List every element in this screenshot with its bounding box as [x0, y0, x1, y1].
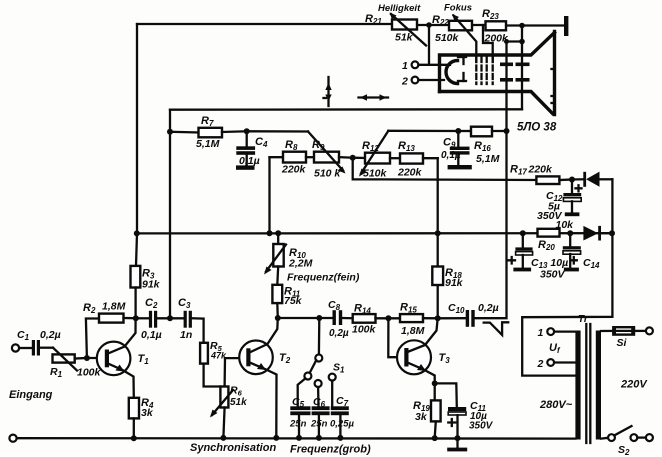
wire wiper line y=130.8 to C9	[388, 130, 458, 132]
svg-text:T2: T2	[279, 352, 291, 365]
svg-text:220V: 220V	[620, 379, 648, 391]
resistor R8	[283, 152, 306, 163]
potentiometer R6	[220, 387, 228, 408]
svg-text:C3: C3	[178, 297, 191, 310]
node D1/C12 junction	[569, 177, 575, 183]
svg-text:1: 1	[402, 60, 408, 72]
wire plate feeds	[521, 26, 523, 110]
wire B+ rail y=233.3	[137, 232, 612, 234]
wire x=170 vertical	[169, 110, 171, 319]
svg-text:25n: 25n	[310, 419, 328, 430]
resistor R23	[486, 21, 507, 30]
svg-text:R21: R21	[365, 13, 382, 26]
input terminal top	[12, 344, 19, 351]
node R18 top	[435, 230, 441, 236]
wire to R9 wiper	[247, 130, 308, 132]
capacitor C7	[331, 406, 349, 410]
node C4 junction	[244, 128, 250, 134]
resistor R5	[200, 343, 208, 364]
svg-text:C14: C14	[583, 257, 600, 270]
svg-text:R2: R2	[83, 302, 96, 315]
node T3 emitter junction	[432, 380, 438, 386]
wire X-plate drop and R9/R12 junction line y=179.5	[353, 158, 537, 180]
resistor R1 with slash	[40, 347, 53, 349]
svg-text:R1: R1	[50, 366, 63, 379]
svg-text:5,1M: 5,1M	[476, 153, 500, 165]
switch S1	[318, 318, 321, 355]
svg-text:3k: 3k	[415, 411, 428, 423]
svg-text:10k: 10k	[556, 219, 575, 231]
node plate junction y=41.5	[519, 39, 525, 45]
resistor R4	[129, 398, 139, 419]
node R15/C10/R18/T3 junction	[435, 315, 441, 321]
node C7 bottom	[337, 435, 343, 441]
svg-text:220k: 220k	[528, 164, 554, 176]
potentiometer R12	[353, 157, 365, 160]
node R10 top	[275, 230, 281, 236]
svg-text:5,1M: 5,1M	[196, 138, 220, 150]
node C6 bottom	[316, 435, 322, 441]
svg-text:R17: R17	[510, 164, 527, 177]
node base T1 junction	[84, 355, 90, 361]
node R9/R12 junction	[350, 155, 356, 161]
wire cathode drop x=429	[428, 25, 430, 65]
resistor R20	[538, 229, 560, 237]
node R16 right on plate line	[504, 128, 510, 134]
resistor R11	[276, 267, 279, 285]
svg-text:R8: R8	[285, 139, 298, 152]
svg-text:R13: R13	[398, 140, 415, 153]
capacitor C3	[184, 311, 187, 328]
svg-text:S2: S2	[618, 444, 630, 457]
svg-text:510 k: 510 k	[314, 168, 341, 180]
svg-text:5ЛО 38: 5ЛО 38	[517, 122, 557, 134]
node C2 left junction	[133, 315, 139, 321]
svg-text:C8: C8	[328, 299, 341, 312]
ground	[456, 438, 458, 448]
transistor T2	[239, 341, 273, 375]
wire G2 drop from R22/R23 wire	[483, 25, 493, 62]
svg-text:0,1µ: 0,1µ	[441, 150, 461, 161]
svg-text:R22: R22	[432, 14, 449, 27]
svg-text:350V: 350V	[469, 421, 494, 432]
svg-text:R15: R15	[400, 302, 417, 315]
node R19 bottom	[432, 435, 438, 441]
capacitor C2	[136, 317, 149, 319]
diode D2	[583, 226, 598, 241]
node T2 collector junction	[275, 315, 281, 321]
svg-text:C5: C5	[292, 396, 305, 409]
svg-text:C10: C10	[448, 302, 465, 315]
resistor R14	[353, 314, 376, 323]
heater terminal 2	[412, 77, 419, 84]
svg-text:C4: C4	[255, 136, 268, 149]
svg-text:2,2M: 2,2M	[288, 258, 313, 270]
svg-text:T1: T1	[138, 353, 150, 366]
svg-text:C7: C7	[336, 395, 349, 408]
heater terminal 1	[412, 61, 419, 68]
capacitor C13 electrolytic	[522, 233, 524, 247]
wire R8 left drop	[270, 156, 284, 158]
capacitor C6	[312, 406, 330, 410]
svg-text:0,1µ: 0,1µ	[239, 155, 260, 167]
capacitor C5	[290, 406, 310, 410]
transformer primary winding bar	[596, 331, 601, 440]
svg-text:Fokus: Fokus	[444, 3, 472, 14]
node D2 right	[609, 230, 615, 236]
node S1 drop	[316, 315, 322, 321]
svg-text:51k: 51k	[230, 397, 247, 408]
anode terminal bar top right	[564, 16, 568, 36]
focus grid dashed lines	[475, 57, 477, 84]
deflection plates pair 2	[516, 63, 530, 67]
deflection plates pair 1	[500, 63, 513, 67]
transistor T3	[397, 340, 431, 374]
resistor R7	[170, 131, 199, 134]
adjust arrow vertical	[327, 77, 329, 106]
wiper arrow of R22 going to focus grid	[454, 16, 477, 63]
cathode arc	[446, 61, 458, 84]
svg-text:R9: R9	[312, 139, 325, 152]
capacitor C10	[438, 317, 466, 319]
svg-text:2: 2	[401, 76, 408, 88]
potentiometer R10	[277, 233, 279, 244]
resistor R13	[390, 157, 400, 159]
capacitor C14 electrolytic	[569, 233, 571, 246]
node R4 bottom	[131, 435, 137, 441]
svg-text:350V: 350V	[540, 269, 566, 281]
resistor R22	[449, 21, 472, 31]
CRT screen face	[553, 32, 556, 115]
svg-text:Si: Si	[617, 337, 628, 349]
heater winding terminal 1	[547, 328, 554, 335]
svg-text:Eingang: Eingang	[9, 389, 53, 401]
node T2 emitter bottom	[273, 435, 279, 441]
svg-text:220k: 220k	[281, 164, 307, 176]
node cathode drop junction	[426, 22, 432, 28]
node top plate feed 1	[519, 23, 525, 29]
capacitor C12 electrolytic	[571, 180, 573, 194]
svg-text:3k: 3k	[141, 407, 154, 419]
node R8 drop	[267, 230, 273, 236]
svg-text:R12: R12	[362, 140, 379, 153]
svg-text:S1: S1	[333, 362, 345, 375]
svg-text:91k: 91k	[445, 277, 464, 289]
svg-text:R14: R14	[354, 303, 371, 316]
svg-text:1,8M: 1,8M	[401, 325, 425, 337]
wire x=437.7 vertical R13 to B+ rail and T3	[437, 158, 439, 318]
wiper arrow of R9	[308, 132, 343, 171]
svg-text:Frequenz(grob): Frequenz(grob)	[290, 444, 371, 456]
svg-text:R7: R7	[201, 115, 214, 128]
adjust arrow horizontal	[359, 96, 389, 98]
switch S2	[601, 437, 608, 440]
wire right vertical to transformer	[522, 179, 612, 375]
node rail left corner	[134, 230, 140, 236]
svg-text:Frequenz(fein): Frequenz(fein)	[287, 272, 360, 284]
svg-text:Uf: Uf	[549, 342, 561, 355]
svg-text:0,2µ: 0,2µ	[478, 302, 499, 314]
resistor R3	[131, 266, 141, 288]
CRT tube 5LO38 envelope	[440, 33, 555, 92]
node R14/R15 junction	[385, 315, 391, 321]
wiper arrow of R10	[266, 245, 286, 272]
node C2/C3 junction with x=170 drop	[167, 315, 173, 321]
svg-text:510k: 510k	[363, 168, 388, 180]
svg-text:1,8M: 1,8M	[102, 301, 126, 313]
svg-text:510k: 510k	[435, 32, 460, 44]
transistor T1	[97, 342, 131, 376]
fuse Si	[601, 330, 613, 332]
resistor R2	[86, 319, 99, 359]
svg-text:R16: R16	[474, 140, 491, 153]
svg-text:C2: C2	[145, 297, 158, 310]
sawtooth waveform symbol	[484, 322, 509, 335]
resistor R15	[400, 314, 423, 322]
capacitor C9	[457, 131, 459, 147]
node C9 top	[455, 128, 461, 134]
diode D1	[572, 178, 584, 180]
terminal bottom left	[9, 435, 16, 442]
grid G1 dashes	[462, 57, 464, 64]
node R6 bottom	[220, 435, 226, 441]
svg-text:Helligkeit: Helligkeit	[378, 3, 421, 14]
node R7 left junction	[167, 129, 173, 135]
capacitor C4	[246, 131, 248, 146]
svg-text:0,2µ: 0,2µ	[40, 329, 61, 341]
svg-text:75k: 75k	[284, 295, 303, 307]
svg-text:91k: 91k	[142, 279, 161, 291]
svg-text:280V~: 280V~	[539, 399, 573, 411]
wire bottom rail	[17, 437, 576, 440]
svg-text:R20: R20	[538, 239, 555, 252]
svg-text:Synchronisation: Synchronisation	[190, 442, 276, 454]
svg-text:C9: C9	[443, 137, 456, 150]
svg-text:R23: R23	[482, 8, 499, 21]
wire y=318 T2 to C8	[278, 317, 333, 319]
svg-text:Tr: Tr	[578, 314, 589, 325]
svg-text:T3: T3	[439, 352, 451, 365]
svg-text:220k: 220k	[397, 167, 423, 179]
node C5 bottom	[296, 435, 302, 441]
capacitor C8	[333, 310, 336, 325]
node C14/D2 junction	[567, 230, 573, 236]
wire X-plate line x=506.5 down to C10	[475, 131, 507, 318]
svg-text:1: 1	[538, 327, 544, 339]
svg-text:1n: 1n	[180, 329, 192, 341]
potentiometer R9	[314, 152, 339, 163]
capacitor C11 electrolytic	[435, 383, 457, 407]
svg-text:0,2µ: 0,2µ	[329, 328, 349, 339]
wire left border vertical x=137	[136, 24, 137, 266]
capacitor C1	[32, 340, 35, 356]
node C13 top	[520, 230, 526, 236]
svg-text:100k: 100k	[77, 367, 102, 379]
heater winding terminal 2	[547, 359, 554, 366]
wiper arrow of R12 up to R16 line	[361, 131, 388, 174]
wire T3 base feed	[388, 318, 404, 357]
svg-text:C1: C1	[17, 329, 30, 342]
transformer Tr core	[585, 324, 587, 443]
wiper arrow of R21	[391, 14, 426, 46]
node C11 bottom	[455, 435, 461, 441]
resistor R17	[536, 176, 559, 184]
wire top rail y=24 from left corner to terminal	[137, 23, 392, 25]
resistor R19	[434, 383, 436, 400]
wire T2 base	[225, 357, 246, 359]
svg-text:100k: 100k	[352, 324, 377, 336]
svg-text:2: 2	[537, 358, 544, 370]
resistor R21	[392, 20, 417, 30]
wiper arrow of R6	[212, 390, 233, 415]
resistor R16	[458, 130, 471, 132]
svg-text:C6: C6	[313, 396, 326, 409]
transformer secondary winding bar	[575, 331, 580, 440]
svg-text:25n: 25n	[289, 419, 307, 430]
resistor R18	[432, 267, 443, 286]
svg-text:0,1µ: 0,1µ	[141, 329, 162, 341]
svg-text:0,25µ: 0,25µ	[330, 419, 354, 430]
wire y=109 from plate2 down-left across	[170, 108, 522, 111]
